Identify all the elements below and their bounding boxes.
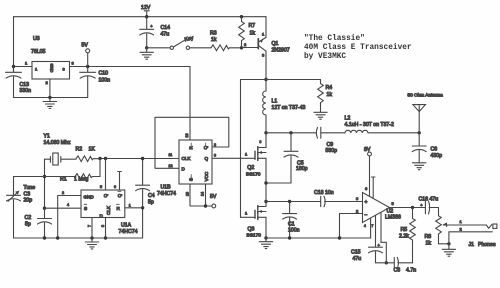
wire gate bus vertical [240, 80, 242, 218]
wire R8 wiper to jack [447, 224, 487, 226]
wire zobel rail [376, 262, 413, 264]
capacitor C15 polarized [351, 215, 383, 262]
svg-text:3: 3 [262, 53, 265, 58]
svg-text:5V: 5V [82, 43, 89, 49]
wire pin6 from 8V [369, 156, 371, 197]
svg-text:L2: L2 [345, 116, 351, 122]
svg-text:C6: C6 [431, 147, 438, 153]
node rail clk pin [104, 236, 107, 239]
svg-text:BS170: BS170 [247, 233, 262, 239]
wire Q2 gate [212, 157, 255, 159]
svg-text:2N2907: 2N2907 [272, 48, 290, 54]
node drain RF [264, 131, 267, 134]
svg-text:5p: 5p [25, 222, 31, 228]
flip-flop U1B 74HC74 [157, 134, 216, 198]
resistor R1 [60, 174, 93, 183]
transistor Q2 BS170 [245, 140, 266, 177]
svg-text:J1: J1 [469, 242, 475, 248]
svg-text:8: 8 [214, 143, 216, 147]
node jack ground [447, 242, 450, 245]
wire Q2 source down [265, 158, 267, 201]
wire pin4 ground [370, 218, 372, 238]
svg-text:5p: 5p [148, 200, 154, 206]
capacitor C9 [316, 127, 345, 154]
svg-text:CLK: CLK [182, 156, 192, 161]
node collector branch [264, 78, 267, 81]
wire pin8 stub [371, 177, 375, 199]
svg-text:Y1: Y1 [44, 134, 50, 140]
svg-text:VCC: VCC [204, 171, 209, 181]
svg-text:C15: C15 [351, 250, 361, 256]
svg-text:14.060 Mhz: 14.060 Mhz [44, 140, 72, 146]
svg-text:2.2k: 2.2k [399, 234, 409, 240]
node C1 bottom [288, 236, 291, 239]
wire RF out to C9 [266, 132, 316, 134]
capacitor C4 [136, 159, 155, 239]
svg-text:4: 4 [364, 224, 366, 228]
connector J1 Phones [460, 219, 497, 248]
wire pin gain bend [381, 213, 386, 263]
svg-text:R: R [117, 206, 121, 211]
svg-text:C14: C14 [161, 25, 171, 31]
svg-text:C8: C8 [394, 268, 401, 274]
ground rail audio [266, 237, 371, 239]
svg-text:3: 3 [72, 61, 75, 66]
node S bar junction [43, 207, 46, 210]
svg-text:R8: R8 [425, 234, 432, 240]
svg-text:LM386: LM386 [385, 215, 401, 221]
node VCC junction [204, 204, 207, 207]
wire Q3 source to ground rail [265, 217, 267, 238]
svg-text:47u: 47u [161, 32, 170, 38]
svg-text:U1B: U1B [161, 185, 172, 191]
wire R3 to Q1 base node [230, 47, 242, 49]
svg-text:C3: C3 [24, 191, 31, 197]
svg-text:CLK: CLK [106, 205, 111, 215]
capacitor C8 [394, 257, 417, 273]
svg-text:5: 5 [392, 201, 395, 206]
wire audio node [266, 201, 320, 203]
svg-text:1: 1 [129, 204, 131, 208]
wire collector branch to R4 [241, 79, 321, 81]
svg-text:5V: 5V [210, 194, 217, 200]
svg-text:+: + [365, 200, 368, 206]
wire regulator input [14, 66, 33, 68]
svg-text:4.7n: 4.7n [406, 268, 416, 274]
terminal 5V regulator output [82, 43, 90, 67]
svg-text:10: 10 [186, 192, 190, 196]
svg-text:1: 1 [35, 67, 38, 72]
wire R8 bottom [439, 243, 449, 245]
wire Q1 collector down [265, 51, 267, 79]
svg-text:+: + [420, 203, 423, 208]
resistor R2 [76, 147, 101, 162]
resistor R5 [399, 208, 415, 263]
svg-text:Q: Q [103, 194, 108, 198]
wire crystal left loop [44, 159, 46, 208]
svg-text:C2: C2 [25, 215, 32, 221]
svg-text:1K: 1K [89, 147, 96, 153]
svg-text:L1: L1 [272, 99, 278, 105]
title text [304, 35, 412, 61]
svg-text:180p: 180p [296, 166, 308, 172]
terminal 5V U1B [210, 194, 217, 208]
capacitor C16 polarized [419, 197, 439, 215]
ground regulator [43, 98, 56, 109]
wire U1A Q pin5 stub [105, 159, 107, 191]
node C1 top [288, 200, 291, 203]
wire 5V drop to U1B reset [189, 67, 191, 141]
potentiometer R8 [425, 208, 448, 247]
capacitor C1 [283, 202, 300, 239]
svg-text:6: 6 [365, 186, 368, 191]
ground R4 [314, 108, 327, 119]
node C14 top [145, 15, 148, 18]
svg-text:U1A: U1A [121, 223, 132, 229]
svg-text:78L05: 78L05 [31, 49, 46, 55]
svg-text:4.1uH - 30T on T37-2: 4.1uH - 30T on T37-2 [345, 122, 395, 128]
svg-text:BS170: BS170 [246, 171, 261, 177]
wire S bar row [45, 207, 82, 209]
svg-text:Q1: Q1 [272, 41, 279, 47]
wire regulator bottom rail [14, 97, 88, 99]
ground C14 [140, 48, 153, 59]
svg-text:12V: 12V [141, 5, 151, 11]
wire C5 bottom to source node [266, 182, 291, 184]
svg-text:2: 2 [46, 80, 49, 85]
svg-text:Q2: Q2 [247, 165, 254, 171]
wire key to R3 [190, 47, 211, 49]
node Q1 base [240, 46, 243, 49]
svg-text:20p: 20p [24, 198, 33, 204]
svg-text:1k: 1k [211, 37, 217, 43]
svg-text:100n: 100n [288, 228, 300, 234]
svg-text:9: 9 [214, 154, 216, 158]
crystal Y1 14.060 Mhz [44, 134, 77, 166]
capacitor C5 [284, 133, 308, 183]
node rail gnd pin [90, 236, 93, 239]
ground U1A [85, 238, 98, 249]
svg-text:"The Classie": "The Classie" [304, 35, 365, 43]
wire D pin row [58, 196, 81, 239]
wire U1B S and VCC to 5V [190, 184, 212, 206]
voltage regulator U3 78L05 [25, 36, 75, 85]
svg-text:2: 2 [244, 42, 247, 47]
svg-text:R2: R2 [76, 147, 83, 153]
flip-flop U1A 74HC74 [62, 185, 138, 235]
wire feedback row [14, 176, 101, 178]
svg-text:S: S [189, 178, 194, 181]
node R1 top [98, 157, 101, 160]
ground jack [442, 248, 455, 256]
node feedback junction [43, 175, 46, 178]
capacitor C3 variable Tune [7, 177, 36, 239]
antenna 50 Ohm [408, 93, 444, 133]
svg-text:430p: 430p [431, 153, 443, 159]
svg-text:1k: 1k [327, 92, 333, 98]
wire left drop to C13 [13, 17, 15, 72]
svg-text:1k: 1k [426, 241, 432, 247]
svg-text:7: 7 [372, 224, 374, 228]
wire left ground rail [14, 237, 143, 239]
svg-text:5: 5 [100, 185, 102, 189]
svg-text:1: 1 [262, 32, 265, 37]
svg-text:GND: GND [84, 195, 95, 200]
transistor Q1 2N2907 [244, 32, 290, 58]
wire Q1 emitter to rail [265, 17, 267, 38]
wire to key [147, 47, 170, 49]
wire output pin5 [390, 207, 426, 209]
svg-text:1: 1 [245, 152, 248, 157]
capacitor C14 polarized [140, 17, 170, 48]
svg-text:1: 1 [245, 211, 248, 216]
svg-text:S: S [84, 206, 87, 211]
svg-text:40M Class E Transceiver: 40M Class E Transceiver [304, 44, 412, 52]
wire 12V top rail [14, 16, 267, 18]
svg-text:C4: C4 [148, 193, 155, 199]
svg-text:2: 2 [62, 191, 64, 195]
capacitor C2 [25, 208, 52, 238]
node Q3 ground [264, 236, 267, 239]
svg-text:D: D [182, 167, 186, 172]
node pin2 ground [338, 236, 341, 239]
wire osc node to U1B clk [100, 158, 179, 160]
svg-text:560p: 560p [326, 148, 338, 154]
svg-text:R1: R1 [60, 177, 67, 183]
ground main [259, 238, 272, 249]
svg-text:GND: GND [50, 64, 55, 73]
svg-text:50 Ohm Antenna: 50 Ohm Antenna [408, 93, 444, 98]
wire drain node down to Q2 [265, 133, 267, 148]
wire U1A pin6 stub [118, 172, 122, 191]
node rail D [56, 236, 59, 239]
svg-text:Phones: Phones [478, 242, 496, 248]
svg-text:12: 12 [169, 164, 173, 168]
node zobel junction [385, 261, 388, 264]
wire regulator ground pin [49, 79, 51, 98]
svg-text:4: 4 [67, 203, 69, 207]
node Q pin5 [104, 157, 107, 160]
capacitor C6 [412, 133, 442, 163]
wire R bar stub [125, 207, 143, 209]
node audio tap [264, 200, 267, 203]
svg-text:R4: R4 [326, 85, 333, 91]
svg-text:1 Meg: 1 Meg [74, 177, 89, 183]
svg-text:R3: R3 [210, 31, 217, 37]
svg-text:100n: 100n [99, 78, 111, 84]
node antenna junction [418, 131, 421, 134]
node C13 junction [12, 65, 15, 68]
svg-text:14: 14 [201, 192, 205, 196]
op-amp U2 LM386 [356, 186, 401, 228]
node C5 bottom junction [264, 181, 267, 184]
wire base [242, 47, 259, 49]
wire pin2 input [340, 214, 363, 239]
switch Key [170, 35, 194, 49]
svg-text:R7: R7 [249, 23, 256, 29]
svg-text:Q: Q [117, 194, 122, 198]
svg-text:+: + [150, 24, 153, 29]
svg-text:74HC74: 74HC74 [119, 229, 138, 235]
svg-text:C18 10n: C18 10n [314, 190, 334, 196]
resistor R3 [210, 31, 230, 51]
wire Q3 gate [241, 216, 256, 218]
wire jack sleeve [449, 232, 492, 249]
inductor L2 [345, 116, 420, 133]
svg-text:1: 1 [25, 61, 28, 66]
svg-text:6: 6 [114, 185, 116, 189]
capacitor C10 [80, 67, 110, 98]
wire U1A gnd pin7 [91, 218, 93, 239]
svg-text:330n: 330n [20, 88, 32, 94]
svg-text:3: 3 [63, 67, 66, 72]
wire R1 right vertical [99, 159, 101, 177]
inductor L1 [263, 80, 306, 133]
svg-text:by VE3MKC: by VE3MKC [304, 53, 346, 61]
resistor R4 [318, 80, 333, 109]
svg-text:2: 2 [460, 227, 463, 232]
node C4 top [141, 157, 144, 160]
svg-text:3: 3 [356, 196, 359, 201]
node R7 top [240, 15, 243, 18]
transistor Q3 BS170 [245, 202, 266, 239]
svg-text:Key: Key [184, 35, 195, 43]
svg-text:47u: 47u [353, 256, 362, 262]
svg-text:13: 13 [185, 134, 189, 138]
wire U1A clk pin3 [105, 218, 107, 239]
node rail C3 [43, 236, 46, 239]
svg-text:C16 47u: C16 47u [419, 197, 439, 203]
node C5 tap [289, 131, 292, 134]
svg-text:7: 7 [88, 225, 92, 227]
terminal 8V supply [364, 147, 371, 156]
svg-text:74HC74: 74HC74 [157, 191, 176, 197]
svg-text:Q3: Q3 [248, 227, 255, 233]
wire U1B feedback loop [155, 117, 229, 168]
svg-text:3: 3 [260, 140, 262, 144]
svg-text:−: − [365, 213, 368, 219]
svg-text:1: 1 [460, 219, 463, 224]
svg-text:R5: R5 [401, 227, 408, 233]
svg-text:1k: 1k [250, 31, 256, 37]
node C4 R bar [141, 206, 144, 209]
svg-text:2: 2 [356, 209, 359, 214]
node output R5 [411, 206, 414, 209]
svg-text:8V: 8V [364, 147, 371, 153]
svg-text:3: 3 [101, 225, 105, 227]
supply 12V [141, 5, 151, 17]
resistor R7 [239, 17, 256, 48]
capacitor C18 [314, 190, 363, 207]
svg-text:U3: U3 [33, 36, 40, 42]
capacitor C13 [6, 67, 32, 98]
svg-text:C10: C10 [99, 71, 109, 77]
svg-text:Q: Q [205, 156, 209, 161]
ground antenna C6 [413, 163, 426, 170]
wire regulator output 5V line [70, 66, 191, 68]
node regulator ground [48, 96, 51, 99]
svg-text:12T on T37-43: 12T on T37-43 [272, 105, 306, 111]
node C10 junction [86, 65, 89, 68]
svg-text:11: 11 [169, 153, 173, 157]
node key junction [145, 46, 148, 49]
svg-text:Tune: Tune [24, 185, 36, 191]
